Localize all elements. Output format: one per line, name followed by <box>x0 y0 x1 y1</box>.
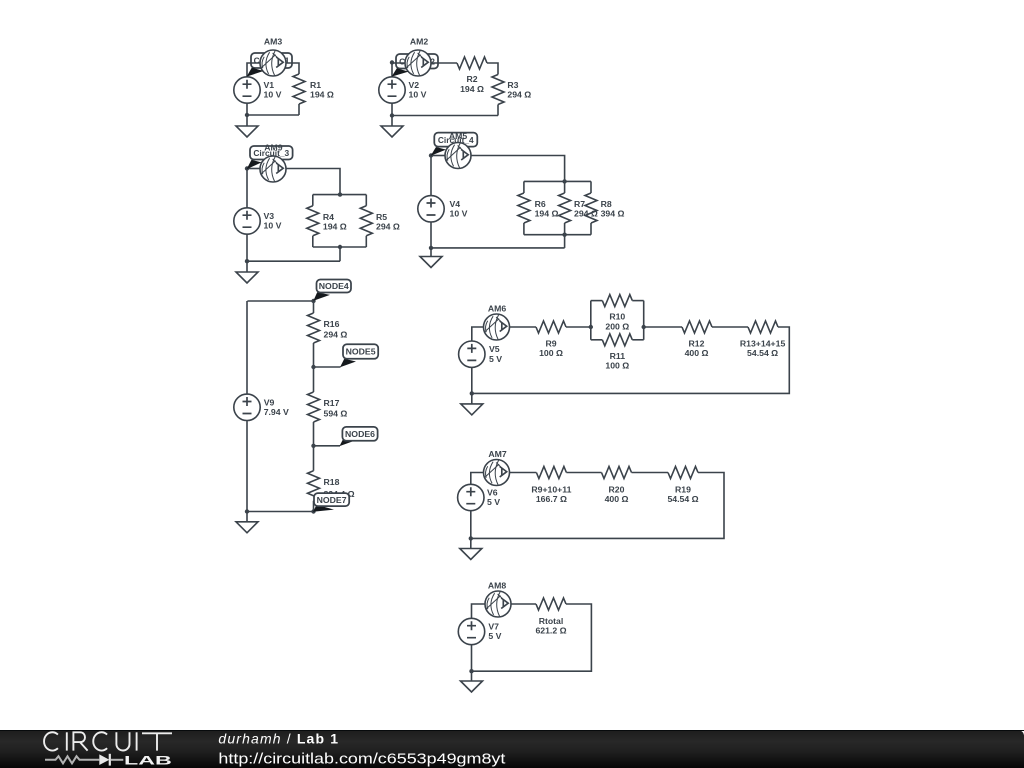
svg-text:R7: R7 <box>574 199 585 209</box>
svg-text:294 Ω: 294 Ω <box>324 330 348 340</box>
svg-text:R3: R3 <box>507 80 518 90</box>
svg-text:AM5: AM5 <box>449 131 468 141</box>
svg-text:194 Ω: 194 Ω <box>310 90 334 100</box>
svg-text:AM3: AM3 <box>264 37 283 47</box>
svg-text:R6: R6 <box>535 199 546 209</box>
svg-text:V6: V6 <box>487 488 498 498</box>
svg-text:R1: R1 <box>310 80 321 90</box>
svg-text:NODE7: NODE7 <box>317 495 347 505</box>
svg-text:166.7 Ω: 166.7 Ω <box>536 494 567 504</box>
svg-text:621.2 Ω: 621.2 Ω <box>535 626 566 636</box>
svg-text:http://circuitlab.com/c6553p49: http://circuitlab.com/c6553p49gm8yt <box>218 751 506 768</box>
svg-text:400 Ω: 400 Ω <box>605 494 629 504</box>
svg-text:V1: V1 <box>264 80 275 90</box>
svg-text:294 Ω: 294 Ω <box>507 90 531 100</box>
svg-text:durhamh / Lab 1: durhamh / Lab 1 <box>218 730 339 746</box>
svg-text:V5: V5 <box>489 344 500 354</box>
svg-text:5 V: 5 V <box>489 354 502 364</box>
svg-text:AM6: AM6 <box>488 304 507 314</box>
svg-text:AM7: AM7 <box>488 449 507 459</box>
svg-text:R5: R5 <box>376 212 387 222</box>
svg-text:R8: R8 <box>601 199 612 209</box>
svg-text:100 Ω: 100 Ω <box>605 361 629 371</box>
svg-text:V7: V7 <box>488 622 499 632</box>
svg-text:AM2: AM2 <box>410 37 429 47</box>
svg-text:R18: R18 <box>324 477 340 487</box>
svg-text:Rtotal: Rtotal <box>539 616 564 626</box>
svg-text:R17: R17 <box>324 398 340 408</box>
svg-text:54.54 Ω: 54.54 Ω <box>747 348 778 358</box>
svg-text:R10: R10 <box>609 312 625 322</box>
svg-text:R9+10+11: R9+10+11 <box>531 484 571 494</box>
svg-text:7.94 V: 7.94 V <box>264 407 289 417</box>
svg-text:AM8: AM8 <box>488 581 507 591</box>
svg-text:394 Ω: 394 Ω <box>601 209 625 219</box>
svg-text:V2: V2 <box>409 80 420 90</box>
svg-text:AM9: AM9 <box>264 142 283 152</box>
svg-text:R4: R4 <box>323 212 334 222</box>
svg-text:194 Ω: 194 Ω <box>323 222 347 232</box>
svg-text:V4: V4 <box>450 199 461 209</box>
svg-text:R13+14+15: R13+14+15 <box>740 338 786 348</box>
svg-text:R16: R16 <box>324 319 340 329</box>
svg-text:400 Ω: 400 Ω <box>685 348 709 358</box>
svg-text:10 V: 10 V <box>264 90 282 100</box>
svg-text:R2: R2 <box>466 74 477 84</box>
svg-text:R9: R9 <box>545 338 556 348</box>
svg-text:NODE5: NODE5 <box>346 347 376 357</box>
svg-text:R11: R11 <box>610 351 626 361</box>
svg-text:200 Ω: 200 Ω <box>605 321 629 331</box>
svg-text:R12: R12 <box>689 338 705 348</box>
svg-text:V3: V3 <box>264 211 275 221</box>
svg-text:54.54 Ω: 54.54 Ω <box>667 494 698 504</box>
svg-text:10 V: 10 V <box>409 90 427 100</box>
svg-text:294 Ω: 294 Ω <box>376 222 400 232</box>
svg-text:NODE6: NODE6 <box>345 429 375 439</box>
svg-text:194 Ω: 194 Ω <box>460 84 484 94</box>
svg-text:10 V: 10 V <box>264 221 282 231</box>
svg-text:5 V: 5 V <box>487 497 500 507</box>
svg-text:LAB: LAB <box>124 754 172 768</box>
svg-text:594 Ω: 594 Ω <box>324 409 348 419</box>
svg-text:R19: R19 <box>675 484 691 494</box>
svg-text:294 Ω: 294 Ω <box>574 209 598 219</box>
svg-text:V9: V9 <box>264 397 275 407</box>
svg-text:194 Ω: 194 Ω <box>535 209 559 219</box>
svg-text:10 V: 10 V <box>450 209 468 219</box>
svg-text:100 Ω: 100 Ω <box>539 348 563 358</box>
svg-text:R20: R20 <box>609 484 625 494</box>
svg-text:5 V: 5 V <box>488 631 501 641</box>
svg-text:NODE4: NODE4 <box>319 281 349 291</box>
